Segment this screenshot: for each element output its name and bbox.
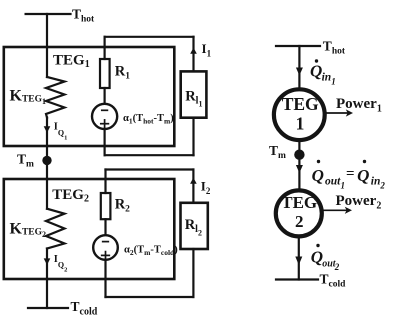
svg-text:Tcold: Tcold (71, 299, 98, 317)
svg-text:Power2: Power2 (336, 193, 382, 212)
svg-text:2: 2 (379, 180, 385, 190)
arrow Power1 (327, 112, 349, 114)
svg-text:Thot: Thot (72, 6, 95, 24)
wire: circuit2 bottom horizontal (106, 296, 194, 298)
svg-text:Thot: Thot (323, 39, 346, 57)
resistor R1 (100, 59, 110, 88)
arrowhead I1 (up) (190, 48, 197, 54)
arrowhead Qout2 (down) (295, 257, 302, 266)
wire: T_m node down to zigzag2 (46, 160, 48, 209)
svg-text:out: out (325, 176, 341, 188)
svg-text:TEG: TEG (281, 193, 317, 212)
svg-text:2: 2 (334, 262, 340, 272)
wire: V2 bottom out of box (104, 260, 106, 297)
svg-text:Rl1: Rl1 (185, 88, 202, 108)
svg-text:R2: R2 (115, 196, 130, 214)
svg-text:α2(Tm-Tcold): α2(Tm-Tcold) (124, 245, 178, 258)
svg-text:KTEG2: KTEG2 (10, 221, 47, 239)
svg-text:1: 1 (331, 76, 336, 86)
node T_cold bar (right diagram) (276, 278, 318, 280)
svg-text:Tm: Tm (17, 151, 34, 169)
wire: circuit1 right vertical to Rl1 (192, 37, 194, 72)
wire: circuit1 top horizontal (105, 36, 194, 38)
resistor R2 (101, 193, 111, 219)
TEG stage 1 circle U1 (274, 89, 325, 140)
wire: circuit2 right vertical Rl2 bottom (192, 249, 194, 297)
svg-text:Tm: Tm (269, 143, 286, 161)
svg-text:Q: Q (357, 166, 369, 185)
svg-text:I2: I2 (201, 179, 211, 196)
svg-text:KTEG1: KTEG1 (10, 88, 47, 106)
svg-text:α1(Thot-Tm): α1(Thot-Tm) (123, 113, 174, 126)
svg-text:TEG: TEG (282, 94, 319, 114)
voltage source V2 alpha2(Tm-Tcold) (93, 235, 118, 260)
arrowhead I_Q2 (44, 258, 51, 265)
load resistor Rl1 (181, 71, 207, 117)
wire: T_hot down through K_TEG1 chain (46, 14, 48, 77)
V1 plus sign (101, 123, 109, 125)
V1 minus sign (102, 109, 108, 111)
load resistor Rl2 (181, 203, 208, 249)
arrowhead Power1 (346, 109, 353, 116)
svg-text:Tcold: Tcold (320, 272, 347, 290)
svg-text:Q: Q (310, 62, 322, 81)
svg-text:IQ1: IQ1 (54, 122, 68, 142)
svg-text:Rl2: Rl2 (185, 217, 202, 238)
svg-text:R1: R1 (115, 63, 130, 81)
wire: circuit2 top horizontal (106, 168, 194, 170)
wire: circuit1 right vertical Rl1 bottom (192, 118, 194, 156)
arrowhead Qout1 (down) (296, 165, 303, 173)
svg-text:1: 1 (296, 113, 305, 133)
svg-text:Q: Q (312, 166, 324, 185)
svg-text:Power1: Power1 (336, 96, 382, 115)
svg-text:1: 1 (341, 180, 346, 190)
svg-text:TEG1: TEG1 (53, 53, 90, 71)
node T_hot bar (left diagram) (26, 13, 71, 15)
V2 minus sign (103, 241, 109, 243)
box TEG2 (4, 179, 175, 279)
wire: circuit2 right vertical to Rl2 (192, 170, 194, 203)
svg-text:I1: I1 (202, 41, 212, 58)
wire: zigzag1 bottom to T_m node (46, 118, 48, 161)
svg-text:in: in (371, 176, 381, 188)
node T_hot bar (right diagram) (276, 45, 320, 47)
arrowhead I_Q1 (44, 126, 51, 133)
resistor K_TEG2 (thermal, zigzag) (46, 209, 65, 249)
arrowhead I2 (up) (190, 178, 197, 184)
voltage source V1 alpha1(Thot-Tm) (92, 104, 117, 129)
wire: Tm node to TEG2 circle (298, 159, 300, 189)
svg-text:in: in (322, 72, 332, 84)
box TEG1 (4, 47, 175, 146)
svg-text:IQ2: IQ2 (54, 254, 68, 274)
wire: TEG2 circle to Tcold (298, 238, 300, 280)
svg-text:=: = (346, 166, 355, 182)
wire: V1 bottom out of box (103, 129, 105, 155)
arrow Power2 (324, 209, 348, 211)
wire: TEG1 circle to Tm node (298, 141, 300, 151)
wire: zigzag2 bottom to T_cold (46, 249, 48, 309)
arrowhead Qin1 (down) (296, 68, 303, 76)
svg-text:TEG2: TEG2 (52, 187, 89, 205)
resistor K_TEG1 (thermal, zigzag) (46, 77, 65, 118)
node T_cold bar (left diagram) (28, 307, 68, 309)
node T_m junction dot (right) (294, 150, 304, 160)
wire: Thot down to TEG1 circle (298, 46, 300, 88)
TEG stage 2 circle U2 (276, 190, 322, 236)
arrowhead Power2 (345, 207, 352, 214)
wire: circuit1 bottom horizontal (105, 154, 194, 156)
wire: R1 branch top vertical (103, 37, 105, 59)
node T_m junction dot (left) (42, 156, 51, 165)
V2 plus sign (102, 254, 110, 256)
wire: R2 branch top vertical (104, 170, 106, 194)
wire: R2 bottom to source V2 (104, 219, 106, 235)
wire: R1 bottom to source V1 (103, 88, 105, 103)
svg-text:2: 2 (295, 212, 304, 231)
